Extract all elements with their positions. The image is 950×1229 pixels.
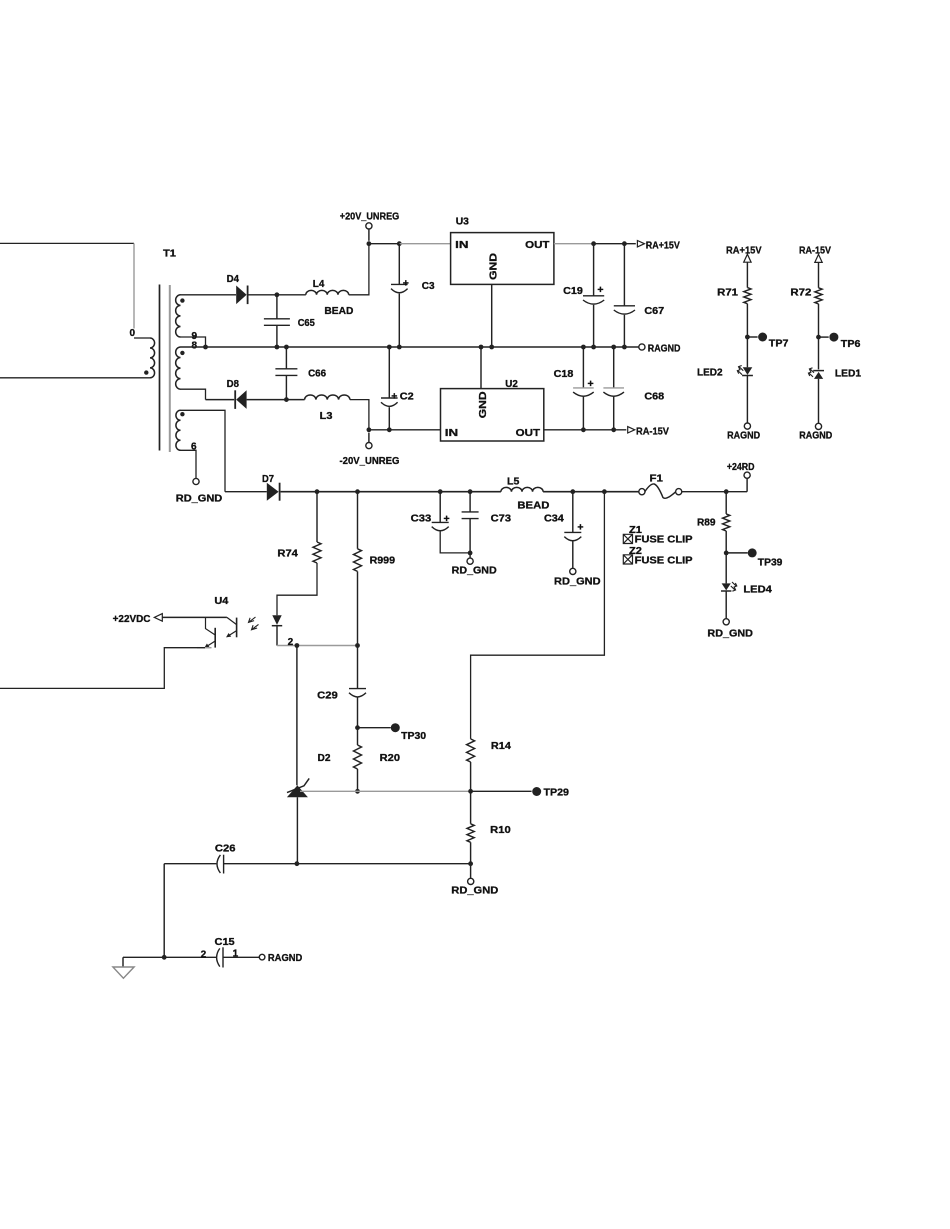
- svg-text:U3: U3: [456, 216, 469, 228]
- wire rail to C68: [613, 347, 615, 388]
- svg-text:U4: U4: [214, 595, 228, 607]
- transformer T1 primary winding: [134, 337, 150, 339]
- wire C18 to OUT line: [582, 397, 584, 430]
- resistor R74: [313, 542, 321, 563]
- svg-text:L4: L4: [313, 278, 325, 290]
- svg-text:C19: C19: [563, 285, 583, 297]
- svg-text:IN: IN: [455, 239, 468, 251]
- wire R89 to LED4: [725, 531, 727, 583]
- junction node 2 (C29 branch): [355, 643, 360, 648]
- arrow RA-15V up: [815, 254, 822, 262]
- wire rail to C34: [572, 492, 574, 533]
- svg-text:C68: C68: [644, 390, 664, 402]
- junction C2 bottom: [387, 427, 392, 432]
- wire L3 to -20V node: [350, 400, 369, 430]
- junction +20V_UNREG: [367, 241, 372, 246]
- wire R74 to opto LED: [277, 563, 317, 615]
- svg-text:LED4: LED4: [743, 583, 772, 595]
- wire RAGND rail: [181, 346, 640, 348]
- junction TP7: [745, 335, 750, 340]
- wire TP29 node to R10: [470, 791, 472, 824]
- test point TP7: [758, 333, 767, 342]
- junction C19 on rail: [591, 345, 596, 350]
- regulator U3: [451, 233, 554, 285]
- junction C18 bottom: [581, 427, 586, 432]
- wire R999 to node 2: [357, 571, 359, 645]
- wire to C19: [593, 244, 595, 296]
- svg-text:U2: U2: [505, 378, 518, 390]
- wire F1 to +24RD: [682, 491, 748, 493]
- diode D4: [236, 286, 246, 305]
- svg-text:RD_GND: RD_GND: [554, 575, 601, 587]
- junction C3 on rail: [397, 345, 402, 350]
- capacitor C18: [573, 387, 594, 389]
- wire arrow to R71: [746, 262, 748, 287]
- junction R20 bottom: [355, 789, 360, 794]
- svg-text:R999: R999: [370, 554, 396, 566]
- wire primary bottom to page edge: [0, 377, 150, 379]
- junction R74 top: [315, 489, 320, 494]
- wire C19 to rail: [593, 305, 595, 347]
- fuse F1 clip left: [639, 489, 645, 495]
- terminal RD_GND (LED4): [723, 619, 729, 625]
- junction pins 8/9 on RAGND rail: [203, 345, 208, 350]
- junction C33 top: [438, 489, 443, 494]
- terminal RAGND (LED1): [815, 423, 821, 429]
- wire U2 OUT to RA-15V: [544, 429, 627, 431]
- capacitor C26: [217, 855, 220, 873]
- regulator U2: [441, 389, 544, 441]
- fuse clip Z1 symbol: [623, 534, 632, 543]
- wire C73 down: [469, 519, 471, 553]
- wire down to -20V terminal: [368, 433, 370, 443]
- terminal RAGND (LED2): [744, 423, 750, 429]
- wire +22VDC to U4: [162, 616, 227, 618]
- svg-text:RA-15V: RA-15V: [799, 245, 831, 257]
- arrow +22VDC: [154, 614, 162, 622]
- junction node 2 (D2 branch): [295, 643, 300, 648]
- wire C65 to RAGND rail: [276, 325, 278, 347]
- junction C66 bottom: [284, 397, 289, 402]
- wire LED4 to RD_GND: [725, 592, 727, 619]
- resistor R89: [723, 514, 730, 531]
- wire emitter nub: [197, 647, 212, 649]
- svg-text:RD_GND: RD_GND: [451, 885, 498, 897]
- junction C26 branch: [162, 955, 167, 960]
- svg-text:+: +: [444, 513, 450, 525]
- junction TP30: [355, 725, 360, 730]
- wire LED1 to RAGND: [818, 379, 820, 424]
- capacitor C19: [583, 295, 604, 297]
- wire +24 rail to R14: [471, 492, 605, 739]
- svg-text:+: +: [597, 284, 603, 296]
- test point TP29: [532, 787, 541, 796]
- junction R14 feed: [602, 489, 607, 494]
- svg-text:D8: D8: [227, 378, 239, 390]
- svg-text:RA+15V: RA+15V: [726, 244, 762, 256]
- capacitor C29: [349, 688, 366, 690]
- LED of optocoupler U4: [272, 615, 281, 625]
- resistor R72: [815, 288, 822, 304]
- junction U3 GND on rail: [489, 345, 494, 350]
- junction C19 top: [591, 241, 596, 246]
- wire U4 emitter to page edge: [0, 648, 205, 689]
- wire U3 GND to rail: [491, 284, 493, 347]
- terminal -20V_UNREG: [366, 443, 372, 449]
- svg-text:TP39: TP39: [758, 556, 783, 568]
- junction C68 bottom: [611, 427, 616, 432]
- secondary 1 phase dot: [180, 298, 184, 302]
- wire C26 to R10 column: [224, 863, 471, 865]
- junction U2 GND on rail: [479, 345, 484, 350]
- wire L4 to +20V node: [349, 244, 369, 295]
- transformer core bar left: [159, 285, 161, 451]
- svg-text:BEAD: BEAD: [324, 305, 353, 317]
- wire L5 to F1: [543, 491, 639, 493]
- wire D2 to R14/R10 node: [300, 790, 471, 792]
- resistor R999: [354, 549, 362, 572]
- wire to C67: [623, 244, 625, 306]
- arrow RA-15V: [628, 427, 635, 433]
- secondary 3 phase dot: [180, 412, 184, 416]
- wire TP30 node to R20: [357, 728, 359, 745]
- junction TP6: [816, 335, 821, 340]
- terminal RAGND (C15): [259, 954, 265, 960]
- terminal RD_GND (R10): [468, 878, 474, 884]
- svg-text:2: 2: [288, 637, 294, 648]
- fuse clip Z2 symbol: [623, 555, 632, 564]
- wire up to +20V_UNREG terminal: [368, 229, 370, 241]
- wire opto LED to node 2: [276, 626, 278, 646]
- wire node2 to D2: [296, 646, 298, 786]
- junction R14/R10: [468, 789, 473, 794]
- svg-text:+24RD: +24RD: [727, 461, 755, 473]
- wire winding2 bottom to D8: [181, 389, 206, 399]
- wire rail to C18: [582, 347, 584, 388]
- svg-text:R71: R71: [717, 286, 738, 298]
- wire primary top from page edge: [0, 242, 134, 244]
- junction D2 branch on C26 line: [295, 861, 300, 866]
- wire node 2: [277, 645, 358, 647]
- LED LED2: [743, 367, 753, 375]
- svg-text:R74: R74: [277, 547, 298, 559]
- zener diode D2: [287, 785, 308, 797]
- diode D8: [236, 390, 246, 409]
- svg-text:+: +: [577, 522, 583, 534]
- fuse F1 clip right: [676, 489, 682, 495]
- wire winding3 to D7: [225, 491, 267, 493]
- svg-text:RD_GND: RD_GND: [452, 565, 497, 577]
- svg-text:GND: GND: [477, 391, 489, 418]
- wire C33 to RD_GND node: [440, 531, 470, 553]
- svg-text:L3: L3: [320, 410, 333, 422]
- test point TP6: [829, 333, 838, 342]
- svg-text:C65: C65: [298, 317, 315, 329]
- wire to TP6: [819, 336, 829, 338]
- svg-text:RA+15V: RA+15V: [646, 239, 680, 251]
- svg-text:+22VDC: +22VDC: [113, 613, 151, 625]
- wire C66 to D8 line: [285, 375, 287, 399]
- svg-text:RAGND: RAGND: [268, 952, 303, 964]
- svg-text:C67: C67: [644, 305, 664, 317]
- wire +20V to C3 plate: [398, 244, 400, 285]
- junction -20V_UNREG: [367, 427, 372, 432]
- wire pin 6 to RD_GND: [181, 450, 197, 478]
- svg-text:D7: D7: [262, 473, 274, 485]
- svg-text:GND: GND: [487, 253, 499, 280]
- resistor R71: [744, 288, 751, 304]
- svg-text:RD_GND: RD_GND: [707, 627, 753, 639]
- wire C67 to rail: [623, 315, 625, 347]
- capacitor C68: [603, 387, 624, 389]
- junction C66 on rail: [284, 345, 289, 350]
- junction C65 on rail: [275, 345, 280, 350]
- svg-text:+: +: [391, 390, 397, 402]
- wire to ground symbol: [122, 957, 124, 967]
- svg-text:RAGND: RAGND: [648, 342, 681, 354]
- secondary 2 phase dot: [180, 351, 184, 355]
- junction C65 top: [275, 292, 280, 297]
- wire ground to C15: [123, 956, 216, 958]
- wire up to +24RD terminal: [746, 478, 748, 492]
- svg-text:R14: R14: [491, 740, 511, 752]
- junction C26 line: [468, 861, 473, 866]
- primary phase dot: [144, 370, 148, 374]
- wire D4 to L4: [248, 294, 306, 296]
- LED LED1: [814, 372, 823, 379]
- wire to TP7: [747, 336, 757, 338]
- svg-text:LED1: LED1: [835, 368, 861, 380]
- svg-text:F1: F1: [650, 472, 664, 484]
- resistor R14: [467, 739, 475, 762]
- wire rail to R74: [316, 492, 318, 542]
- svg-text:RA-15V: RA-15V: [636, 425, 669, 437]
- capacitor C73: [462, 511, 479, 513]
- wire C2 to -20V line: [388, 407, 390, 430]
- terminal RD_GND (C33/C73): [467, 558, 473, 564]
- wire to C26: [164, 863, 216, 865]
- wire LED2 to RAGND: [746, 376, 748, 423]
- wire D7 to L5: [281, 491, 501, 493]
- junction R999 top: [355, 489, 360, 494]
- junction TP39: [724, 551, 729, 556]
- capacitor C67: [614, 305, 635, 307]
- svg-text:C34: C34: [544, 513, 564, 525]
- capacitor C15: [217, 948, 220, 966]
- junction R89 top: [724, 489, 729, 494]
- svg-text:R72: R72: [790, 286, 811, 298]
- junction C2 on rail: [387, 345, 392, 350]
- svg-text:IN: IN: [445, 427, 458, 439]
- capacitor C34: [564, 531, 581, 533]
- capacitor C33: [432, 521, 449, 523]
- wire C3 to RAGND rail: [398, 294, 400, 347]
- svg-text:C15: C15: [215, 936, 235, 948]
- wire rail to C66: [285, 347, 287, 369]
- svg-text:RD_GND: RD_GND: [176, 493, 223, 505]
- svg-text:D4: D4: [227, 273, 239, 285]
- wire R14 to TP29 node: [470, 762, 472, 791]
- terminal RD_GND (C34): [570, 568, 576, 574]
- capacitor C66: [275, 368, 297, 370]
- diode D7: [267, 483, 279, 501]
- svg-text:R10: R10: [490, 824, 511, 836]
- junction C18 on rail: [581, 345, 586, 350]
- svg-text:TP7: TP7: [769, 338, 789, 350]
- wire rail to C73: [469, 492, 471, 512]
- inductor L5: [501, 487, 543, 491]
- fuse F1 element: [645, 484, 676, 498]
- svg-text:C2: C2: [400, 390, 414, 402]
- transformer secondary winding 3: [176, 410, 181, 450]
- junction C33/C73 ground: [468, 551, 473, 556]
- wire to U3 IN: [399, 243, 450, 245]
- LED LED4: [722, 583, 731, 590]
- svg-text:R20: R20: [380, 752, 400, 764]
- terminal +24RD: [744, 472, 750, 478]
- test point TP30: [391, 723, 400, 732]
- junction C67 top: [622, 241, 627, 246]
- junction C67 on rail: [622, 345, 627, 350]
- wire C68 to OUT line: [613, 397, 615, 430]
- wire D4 node to C65: [276, 295, 278, 319]
- terminal +20V_UNREG: [366, 223, 372, 229]
- wire -20V node to U2 IN: [369, 429, 441, 431]
- junction C73 top: [468, 489, 473, 494]
- svg-text:+: +: [403, 277, 409, 289]
- wire winding2 to D8: [206, 399, 235, 401]
- svg-text:LED2: LED2: [697, 367, 723, 379]
- wire winding3 top to +24 rail: [181, 410, 226, 491]
- svg-text:-20V_UNREG: -20V_UNREG: [340, 455, 400, 467]
- svg-text:+20V_UNREG: +20V_UNREG: [340, 211, 400, 223]
- junction C3 top: [397, 241, 402, 246]
- wire C34 down: [572, 541, 574, 568]
- svg-text:C26: C26: [215, 842, 236, 854]
- svg-text:6: 6: [191, 442, 197, 453]
- wire U3 OUT: [554, 243, 594, 245]
- phototransistor U4 (darlington pair): [236, 618, 238, 638]
- wire rail to C2: [388, 347, 390, 398]
- capacitor C65: [264, 318, 290, 320]
- transformer secondary winding 2: [176, 347, 181, 389]
- test point TP39: [748, 548, 757, 557]
- svg-text:D2: D2: [318, 752, 331, 764]
- wire pin 9 stub: [181, 337, 206, 347]
- resistor R10: [467, 824, 474, 843]
- wire arrow to R72: [818, 262, 820, 287]
- wire D8 to L3: [247, 399, 305, 401]
- wire +20V node to C3: [369, 243, 399, 245]
- wire node2 to C29: [357, 646, 359, 689]
- svg-text:L5: L5: [507, 476, 519, 488]
- svg-text:RAGND: RAGND: [799, 430, 832, 442]
- wire to RD_GND terminal: [469, 553, 471, 558]
- transformer secondary winding 1 (pins top-9): [176, 295, 181, 337]
- svg-text:2: 2: [201, 950, 207, 961]
- light arrows into U4: [249, 617, 256, 622]
- svg-text:C33: C33: [411, 513, 432, 525]
- wire R10 to RD_GND: [470, 842, 472, 878]
- svg-text:C66: C66: [308, 368, 326, 380]
- svg-text:+: +: [588, 378, 594, 390]
- wire down to C15 line: [163, 864, 165, 958]
- junction C68 on rail: [611, 345, 616, 350]
- junction C34 top: [570, 489, 575, 494]
- inductor L3: [305, 395, 350, 400]
- arrow RA+15V: [637, 241, 644, 247]
- wire R72 to LED1: [818, 304, 820, 370]
- transformer core bar right: [169, 285, 171, 452]
- svg-text:C29: C29: [317, 689, 338, 701]
- wire winding1 top to D4: [181, 294, 237, 296]
- svg-text:FUSE CLIP: FUSE CLIP: [635, 534, 693, 546]
- svg-text:OUT: OUT: [525, 239, 550, 251]
- svg-text:TP6: TP6: [841, 338, 861, 350]
- wire to TP30: [358, 727, 391, 729]
- svg-text:C3: C3: [422, 280, 435, 292]
- wire D2 to C26 line: [296, 797, 298, 864]
- svg-text:T1: T1: [163, 248, 176, 260]
- svg-text:C73: C73: [491, 513, 511, 525]
- capacitor C2: [381, 397, 398, 399]
- wire C29 to TP30 node: [357, 697, 359, 727]
- wire R20 to D2 rail: [357, 769, 359, 791]
- svg-text:R89: R89: [697, 517, 716, 529]
- wire to TP39: [726, 552, 748, 554]
- wire C15 to RAGND terminal: [223, 956, 259, 958]
- svg-text:OUT: OUT: [516, 427, 541, 439]
- svg-text:C18: C18: [554, 368, 574, 380]
- terminal RAGND: [639, 344, 645, 350]
- svg-text:8: 8: [191, 341, 197, 352]
- wire R71 to LED2: [746, 304, 748, 368]
- svg-text:RAGND: RAGND: [727, 430, 760, 442]
- arrow RA+15V up: [744, 254, 751, 262]
- wire primary vertical to pin 0: [133, 243, 135, 328]
- wire to RA+15V arrow: [594, 243, 636, 245]
- wire rail to R89: [725, 492, 727, 514]
- resistor R20: [354, 745, 362, 769]
- capacitor C3: [391, 283, 408, 285]
- terminal RD_GND (pin 6): [193, 478, 199, 484]
- wire U2 GND to rail: [480, 347, 482, 389]
- wire to TP29: [471, 790, 532, 792]
- svg-text:FUSE CLIP: FUSE CLIP: [635, 554, 693, 566]
- ground symbol: [113, 967, 134, 978]
- svg-text:TP29: TP29: [544, 787, 570, 799]
- inductor L4: [306, 290, 349, 294]
- svg-text:TP30: TP30: [401, 730, 426, 742]
- wire rail to C33: [439, 492, 441, 523]
- wire rail to R999: [357, 492, 359, 549]
- svg-text:BEAD: BEAD: [517, 500, 549, 512]
